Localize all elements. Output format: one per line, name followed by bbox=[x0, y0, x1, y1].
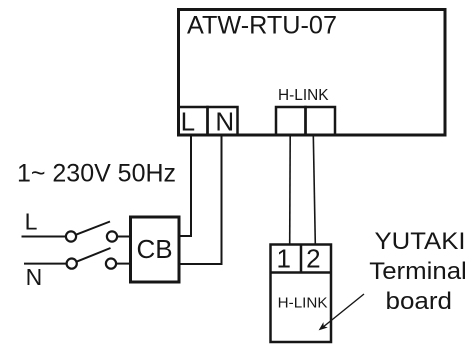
terminal H-LINK pin left bbox=[276, 107, 306, 135]
svg-text:2: 2 bbox=[306, 244, 320, 274]
wire N lead-in bbox=[24, 263, 67, 265]
svg-text:Terminal: Terminal bbox=[369, 258, 467, 285]
svg-text:L: L bbox=[181, 107, 195, 137]
wire switch SN to CB bbox=[116, 263, 131, 265]
terminal row divider (horizontal) bbox=[271, 271, 332, 274]
controller box U1 ATW-RTU-07 bbox=[179, 10, 446, 136]
callout arrow to terminal board bbox=[323, 294, 365, 328]
wire CB to terminal N bbox=[180, 135, 222, 264]
circuit breaker CB bbox=[131, 217, 180, 282]
terminal L bbox=[179, 107, 208, 135]
terminal divider 1|2 (vertical) bbox=[300, 245, 303, 273]
switch SN contact left bbox=[67, 259, 77, 269]
wire H-LINK 2 bbox=[313, 135, 315, 244]
svg-text:H-LINK: H-LINK bbox=[278, 87, 329, 104]
switch SL contact right bbox=[107, 231, 117, 241]
svg-text:1: 1 bbox=[276, 244, 290, 274]
switch SN contact right bbox=[106, 259, 116, 269]
svg-text:CB: CB bbox=[136, 234, 172, 264]
switch SL contact left bbox=[66, 231, 76, 241]
svg-text:1~ 230V 50Hz: 1~ 230V 50Hz bbox=[17, 160, 176, 188]
svg-text:N: N bbox=[215, 107, 234, 137]
wire CB to terminal L bbox=[180, 135, 191, 236]
wire L lead-in bbox=[22, 236, 67, 238]
svg-text:YUTAKI: YUTAKI bbox=[375, 228, 466, 255]
svg-text:N: N bbox=[26, 264, 43, 290]
switch SL blade bbox=[76, 222, 110, 235]
terminal H-LINK pin right bbox=[306, 107, 336, 135]
switch SN blade bbox=[77, 248, 111, 262]
wire H-LINK 1 bbox=[289, 135, 292, 244]
svg-text:board: board bbox=[386, 288, 453, 315]
terminal board TB1 bbox=[271, 245, 332, 343]
svg-text:ATW-RTU-07: ATW-RTU-07 bbox=[187, 12, 337, 40]
svg-text:L: L bbox=[25, 209, 38, 235]
terminal N bbox=[208, 107, 238, 135]
wire switch SL to CB bbox=[117, 236, 131, 238]
svg-text:H-LINK: H-LINK bbox=[278, 295, 328, 312]
